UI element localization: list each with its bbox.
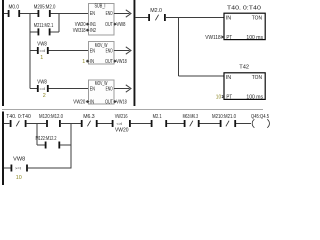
- contact M0.0: [8, 4, 20, 17]
- svg-text:VW8: VW8: [13, 157, 25, 163]
- continuation arrow 2: [114, 47, 131, 54]
- wire: [131, 123, 151, 125]
- svg-text:M6.3: M6.3: [83, 114, 95, 120]
- wire to T40: [166, 17, 224, 19]
- node branch right rail: [70, 124, 72, 169]
- contact M2.1: [151, 114, 167, 127]
- wire: [167, 123, 184, 125]
- timer T40 TON: [224, 6, 265, 41]
- NC contact T40. 0:T40: [6, 114, 31, 127]
- compare contact VW8 ==I 2: [30, 80, 89, 99]
- svg-text:TON: TON: [252, 15, 262, 21]
- contact M122:M12.2: [36, 136, 61, 148]
- node branch rail: [29, 14, 31, 89]
- NC contact M63:M6.3: [183, 114, 200, 127]
- svg-text:==I: ==I: [40, 86, 46, 91]
- svg-text:M210:M21.0: M210:M21.0: [212, 114, 236, 120]
- svg-text:M0.0: M0.0: [9, 4, 20, 10]
- svg-text:SUB_I: SUB_I: [95, 4, 106, 10]
- box SUB_I U1: [89, 4, 115, 36]
- wire: [200, 123, 221, 125]
- svg-text:T40. 0:T40: T40. 0:T40: [6, 114, 31, 120]
- svg-text:VW18: VW18: [116, 59, 126, 65]
- compare contact VW8 >=I 10: [11, 157, 28, 181]
- wire rung1: [4, 13, 8, 15]
- svg-text:VW318: VW318: [73, 28, 86, 34]
- NC contact M6.0: [81, 114, 98, 127]
- svg-text:IN2: IN2: [90, 28, 96, 34]
- svg-text:ENO: ENO: [106, 11, 113, 17]
- svg-text:1: 1: [82, 59, 85, 65]
- svg-text:M2.1: M2.1: [153, 114, 162, 120]
- operand VW318 IN2: [73, 28, 89, 34]
- svg-text:<>I: <>I: [117, 121, 123, 126]
- continuation arrow 1: [114, 10, 131, 17]
- svg-text:VW18: VW18: [116, 100, 126, 106]
- operand VW20 IN: [73, 100, 88, 106]
- left power rail network 2: [2, 112, 4, 186]
- svg-text:IN: IN: [90, 100, 94, 106]
- wire rung M2.0: [135, 17, 149, 19]
- svg-text:M211:M2.1: M211:M2.1: [34, 23, 54, 29]
- svg-text:IN: IN: [90, 59, 94, 65]
- svg-text:OUT: OUT: [105, 100, 113, 106]
- NC contact M2.0: [148, 8, 166, 21]
- svg-text:10: 10: [216, 95, 221, 101]
- svg-text:IN: IN: [226, 15, 231, 21]
- timer T42 TON: [224, 65, 265, 101]
- svg-text:OUT: OUT: [105, 59, 113, 65]
- wire: [28, 167, 72, 169]
- svg-text:TON: TON: [252, 75, 262, 81]
- branch B wire: [4, 167, 11, 169]
- svg-text:ENO: ENO: [106, 48, 113, 54]
- compare contact VW216 <>I VW20: [112, 114, 131, 133]
- operand 1 IN: [82, 59, 88, 65]
- operand VW18 OUT: [114, 59, 127, 65]
- svg-text:==I: ==I: [40, 48, 46, 53]
- svg-text:EN: EN: [90, 86, 95, 92]
- svg-text:VW20: VW20: [73, 100, 85, 106]
- network separator: [2, 109, 263, 111]
- wire branch rejoin: [58, 14, 60, 33]
- wire: [51, 13, 89, 15]
- coil Q45:Q4.5: [251, 114, 269, 128]
- box MOV_W 2: [89, 80, 115, 106]
- node branch A left: [36, 124, 38, 146]
- wire: [26, 123, 46, 125]
- svg-text:M120:M12.0: M120:M12.0: [39, 114, 63, 120]
- svg-text:ENO: ENO: [106, 86, 113, 92]
- wire rung: [4, 123, 9, 125]
- svg-text:Q45:Q4.5: Q45:Q4.5: [251, 114, 269, 120]
- middle power rail: [134, 0, 136, 106]
- svg-text:PT: PT: [226, 95, 232, 101]
- svg-text:EN: EN: [90, 48, 95, 54]
- compare contact VW8 ==I 1: [30, 42, 89, 62]
- svg-text:M205:M2.0: M205:M2.0: [34, 4, 56, 10]
- operand VW118 PT: [205, 35, 223, 41]
- svg-text:PT: PT: [226, 35, 232, 41]
- svg-text:1: 1: [40, 55, 43, 61]
- svg-text:VW8: VW8: [117, 22, 126, 28]
- svg-text:M63:M6.3: M63:M6.3: [183, 114, 199, 120]
- svg-text:VW8: VW8: [37, 80, 47, 86]
- NC contact M210:M21.0: [212, 114, 236, 127]
- svg-text:M122:M12.2: M122:M12.2: [36, 136, 57, 142]
- wire: [236, 123, 251, 125]
- continuation arrow 3: [114, 85, 131, 92]
- contact M211:M2.1: [34, 23, 54, 36]
- contact M120:M12.0: [39, 114, 63, 127]
- svg-text:100 ms: 100 ms: [246, 95, 263, 101]
- operand VW18 OUT: [114, 100, 127, 106]
- wire: [60, 144, 71, 146]
- wire: [98, 123, 112, 125]
- svg-text:VW118: VW118: [205, 35, 220, 41]
- wire: [61, 123, 81, 125]
- svg-text:VW8: VW8: [37, 42, 47, 48]
- operand VW20 IN1: [75, 22, 89, 28]
- wire branch down to T42: [177, 18, 179, 77]
- operand VW8 OUT: [114, 22, 126, 28]
- box MOV_W 1: [89, 42, 115, 66]
- svg-text:OUT: OUT: [105, 22, 113, 28]
- wire parallel branch: [30, 31, 38, 33]
- svg-text:VW216: VW216: [115, 114, 128, 120]
- svg-text:EN: EN: [90, 11, 95, 17]
- svg-text:>=I: >=I: [15, 166, 21, 171]
- wire: [20, 13, 38, 15]
- svg-text:2: 2: [43, 93, 46, 99]
- svg-text:10: 10: [16, 175, 22, 181]
- svg-text:VW20: VW20: [115, 127, 129, 133]
- svg-text:T40. 0:T40: T40. 0:T40: [227, 6, 261, 12]
- wire: [50, 31, 58, 33]
- operand 10 PT: [216, 95, 224, 101]
- branch A wire: [37, 144, 45, 146]
- left power rail network 1: [2, 0, 4, 106]
- svg-text:M2.0: M2.0: [150, 8, 162, 14]
- svg-text:IN: IN: [226, 75, 231, 81]
- contact M205:M2.0: [34, 4, 56, 17]
- svg-text:100 ms: 100 ms: [246, 35, 263, 41]
- svg-text:T42: T42: [239, 65, 249, 71]
